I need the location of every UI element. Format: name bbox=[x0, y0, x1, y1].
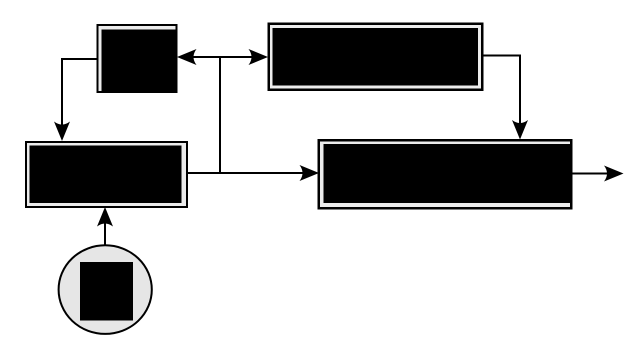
arrowhead into B4 top bbox=[512, 120, 528, 140]
wire junction vertical from double arrow down bbox=[219, 57, 221, 173]
arrowhead into B4 left edge bbox=[300, 165, 320, 181]
node B1 (top-left small box, redacted label) bbox=[97, 24, 178, 93]
node B4 (middle-right wide box, redacted label) bbox=[318, 139, 573, 210]
node B3 (middle-left box, redacted label) bbox=[25, 141, 188, 208]
wire B3 to B4 horizontal bbox=[188, 172, 303, 174]
wire circle to B3 (vertical up) bbox=[104, 223, 106, 246]
wire B1 to B3 (elbow down) bbox=[62, 59, 97, 126]
wire B2 to B4 (elbow down) bbox=[484, 56, 521, 125]
wire B1-B2 double arrow bbox=[193, 56, 252, 58]
wire B4 output bbox=[573, 173, 609, 175]
redaction square inside circle bbox=[80, 262, 133, 321]
arrowhead into B1 right edge bbox=[177, 49, 197, 65]
node B2 (top-right wide box, redacted label) bbox=[268, 23, 484, 92]
terminal circle (start node) bbox=[59, 245, 152, 334]
arrowhead into B2 left edge bbox=[249, 49, 269, 65]
arrowhead output right bbox=[604, 166, 624, 182]
arrowhead into B3 bottom bbox=[97, 207, 113, 227]
arrowhead into B3 top bbox=[54, 122, 70, 142]
